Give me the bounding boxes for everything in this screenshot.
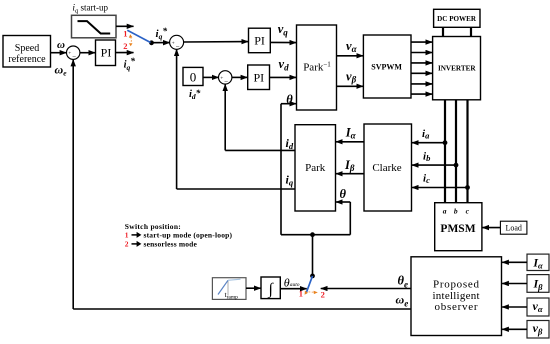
svg-text:id: id <box>286 136 294 151</box>
svg-text:0: 0 <box>190 70 197 85</box>
svg-text:DC POWER: DC POWER <box>437 15 477 23</box>
svg-text:Load: Load <box>505 224 521 233</box>
svg-text:sensorless mode: sensorless mode <box>144 240 198 249</box>
svg-text:Iα: Iα <box>345 126 357 141</box>
svg-text:observer: observer <box>435 301 478 313</box>
svg-text:θ: θ <box>340 187 347 201</box>
svg-text:+: + <box>172 40 175 46</box>
svg-text:INVERTER: INVERTER <box>438 64 476 72</box>
svg-text:id*: id* <box>189 88 201 101</box>
svg-text:SVPWM: SVPWM <box>371 62 402 71</box>
svg-text:1: 1 <box>125 231 129 240</box>
svg-text:1: 1 <box>299 288 303 298</box>
svg-text:Speed: Speed <box>15 43 39 54</box>
svg-text:PMSM: PMSM <box>440 223 475 235</box>
svg-text:iq start-up: iq start-up <box>72 3 108 15</box>
svg-text:ia: ia <box>422 128 430 141</box>
svg-text:vq: vq <box>278 22 289 37</box>
svg-text:θ: θ <box>286 92 293 106</box>
svg-text:2: 2 <box>125 240 129 249</box>
svg-text:PI: PI <box>101 46 112 60</box>
svg-text:−: − <box>176 42 180 50</box>
svg-text:ib: ib <box>423 150 430 163</box>
svg-text:+: + <box>68 51 71 57</box>
svg-text:b: b <box>454 207 458 216</box>
svg-text:1: 1 <box>123 28 127 38</box>
svg-text:+: + <box>220 75 223 81</box>
svg-text:vd: vd <box>279 57 290 72</box>
svg-text:2: 2 <box>123 41 127 51</box>
svg-text:2: 2 <box>321 290 325 300</box>
svg-text:iq: iq <box>286 172 294 187</box>
svg-text:−: − <box>224 77 228 85</box>
svg-text:θauto: θauto <box>284 276 300 290</box>
svg-text:Clarke: Clarke <box>372 162 401 174</box>
svg-text:ω: ω <box>57 39 65 51</box>
svg-text:Proposed: Proposed <box>433 279 480 291</box>
svg-text:θe: θe <box>398 274 409 290</box>
svg-text:ωe: ωe <box>55 62 68 77</box>
svg-text:−: − <box>72 53 76 61</box>
svg-text:ic: ic <box>423 172 430 185</box>
svg-text:start-up mode (open-loop): start-up mode (open-loop) <box>144 231 233 240</box>
svg-text:iq*: iq* <box>156 26 168 41</box>
svg-text:intelligent: intelligent <box>433 290 480 302</box>
svg-text:reference: reference <box>8 54 46 65</box>
svg-text:vβ: vβ <box>346 69 357 84</box>
svg-text:PI: PI <box>253 70 264 84</box>
svg-text:Iβ: Iβ <box>344 158 355 173</box>
svg-text:PI: PI <box>254 34 265 48</box>
svg-text:Park: Park <box>305 162 326 174</box>
svg-text:ωe: ωe <box>396 293 409 309</box>
svg-text:a: a <box>443 207 447 216</box>
svg-text:vα: vα <box>346 39 358 54</box>
svg-text:iq*: iq* <box>124 56 136 72</box>
